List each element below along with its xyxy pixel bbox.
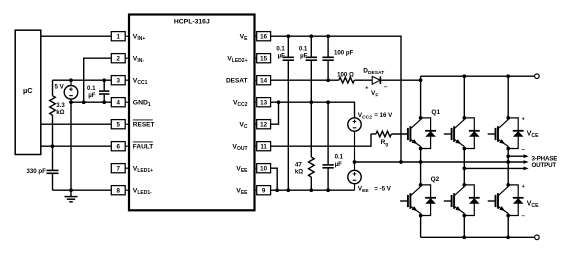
microcontroller µC <box>15 30 41 154</box>
pin 3 label VCC1 <box>133 78 148 86</box>
svg-text:3: 3 <box>116 77 120 84</box>
svg-text:µC: µC <box>23 86 33 95</box>
transistor Q1 phase-2 top (IGBT with freewheel diode) <box>444 116 480 150</box>
capacitor 100 pF (VE to DESAT) <box>322 36 353 80</box>
node VCC1 junctions <box>69 78 106 82</box>
transistor Q2 phase-2 bottom (IGBT with freewheel diode) <box>444 183 480 217</box>
ground <box>65 190 78 202</box>
svg-text:–: – <box>522 213 526 220</box>
pin 9 box <box>255 186 271 195</box>
wire phase-1 output row (VE node) <box>355 160 525 164</box>
pin 8 label VLED1- <box>133 188 152 196</box>
wire DESAT row (pin 14) <box>271 78 339 82</box>
transistor Q2 phase-3 bottom (IGBT with freewheel diode) <box>488 183 524 217</box>
wire phase column 1 bottom emitter rail <box>420 213 422 237</box>
pin 16 box <box>255 32 271 41</box>
pin 12 box <box>255 120 271 129</box>
capacitor 0.1 µF (VE to VCC2 bypass) <box>299 36 317 102</box>
svg-text:–: – <box>522 146 526 153</box>
resistor 3.3 kΩ (VCC1 to FAULT pull-up) <box>50 80 66 146</box>
transistor Q1 phase-1 top (IGBT with freewheel diode) <box>408 116 436 150</box>
op-amp U1 gate driver HCPL-316J body <box>129 15 255 211</box>
pin 11 box <box>255 142 271 151</box>
svg-text:6: 6 <box>116 143 120 150</box>
resistor 100 Ω (DESAT sense) <box>337 71 354 83</box>
wire µC to VIN+ pin 1 <box>41 35 112 37</box>
pin 2 label VIN- <box>133 56 145 64</box>
svg-text:330 pF: 330 pF <box>26 168 46 175</box>
wire phase column 1 emitter/mid rail <box>420 146 422 186</box>
svg-text:µF: µF <box>300 53 308 60</box>
svg-text:+: + <box>522 117 525 123</box>
wire GND1 down to ground <box>70 102 72 190</box>
pin 15 box <box>255 54 271 63</box>
svg-text:8: 8 <box>116 187 120 194</box>
pin 3 box <box>111 76 129 85</box>
wire µC to RESET pin 5 <box>41 123 112 125</box>
voltage source VCC2 = 16 V <box>348 112 393 162</box>
svg-text:100 Ω: 100 Ω <box>337 71 354 78</box>
svg-text:Q1: Q1 <box>431 109 440 116</box>
label Q2 <box>431 176 440 183</box>
label VCE lower <box>522 184 540 219</box>
pin 6 box <box>111 142 129 151</box>
pin 8 box <box>111 186 129 195</box>
svg-text:µF: µF <box>88 92 96 99</box>
pin 13 label VCC2 <box>233 100 248 108</box>
svg-text:11: 11 <box>260 143 267 150</box>
pin 5 box <box>111 120 129 129</box>
pin 2 box <box>111 54 129 63</box>
svg-text:OUTPUT: OUTPUT <box>532 162 557 169</box>
svg-text:1: 1 <box>116 33 120 40</box>
svg-text:10: 10 <box>260 165 267 172</box>
wire phase column 2 collector rail <box>463 76 465 119</box>
svg-text:+: + <box>365 85 368 91</box>
diode D_DESAT <box>354 68 420 99</box>
wire phase column 1 collector rail <box>420 76 422 119</box>
wire DC+ top bus <box>421 74 535 78</box>
svg-text:14: 14 <box>260 77 267 84</box>
svg-text:5 V: 5 V <box>55 84 65 91</box>
transistor Q2 phase-1 bottom (IGBT with freewheel diode) <box>400 183 436 217</box>
label VCE upper <box>522 117 540 153</box>
capacitor 330 pF (FAULT to VLED1-) <box>26 146 58 190</box>
svg-text:µF: µF <box>278 53 286 60</box>
pin 1 label VIN+ <box>133 34 146 42</box>
svg-text:µF: µF <box>335 161 343 168</box>
voltage source 5 V <box>55 80 78 102</box>
svg-text:12: 12 <box>260 121 267 128</box>
wire DC- bottom bus <box>421 235 535 239</box>
pin 4 box <box>111 98 129 107</box>
wire phase-2 output row <box>462 167 524 171</box>
wire VOUT row (pin 11) up to gate resistor <box>271 134 371 146</box>
resistor 47 kΩ (VCC2 to VEE) <box>295 102 314 190</box>
wire VIN- pin 2 tied to GND1 rail <box>84 58 112 102</box>
capacitor 0.1 µF (VCC2 to VEE bypass) <box>322 102 343 190</box>
svg-text:15: 15 <box>260 55 267 62</box>
svg-text:kΩ: kΩ <box>56 109 64 116</box>
svg-text:16: 16 <box>260 33 267 40</box>
pin 4 label GND1 <box>133 100 151 108</box>
svg-text:0.1: 0.1 <box>335 154 344 161</box>
pin 13 box <box>255 98 271 107</box>
svg-text:FAULT: FAULT <box>133 144 153 151</box>
capacitor 0.1 µF (VCC1 bypass) <box>87 80 109 102</box>
wire VCC2 row (pin 13) to source <box>271 100 355 117</box>
wire VC pin 12 tied to VCC2 <box>271 102 279 124</box>
pin 10 label VEE <box>236 166 248 174</box>
wire VEE pin 10 down to VEE row <box>271 168 278 190</box>
pin 9 label VEE <box>236 188 248 196</box>
wire VEE row (pin 9) <box>271 188 355 192</box>
wire VE row from pin 16 to bridge <box>271 34 401 162</box>
svg-text:4: 4 <box>116 99 120 106</box>
pin 6 label FAULT <box>133 142 153 151</box>
svg-text:100 pF: 100 pF <box>334 49 354 56</box>
svg-text:13: 13 <box>260 99 267 106</box>
svg-text:Q2: Q2 <box>431 176 440 183</box>
svg-text:0.1: 0.1 <box>276 45 285 52</box>
pin 10 box <box>255 164 271 173</box>
wire VCC1 rail (pin 3 row) <box>53 79 112 81</box>
capacitor 0.1 µF (VE to VEE bypass) <box>276 36 294 190</box>
svg-text:= -5 V: = -5 V <box>374 186 392 193</box>
node DC+ terminal <box>535 74 540 79</box>
pin 1 box <box>111 32 129 41</box>
pin 5 label RESET <box>133 120 155 129</box>
wire phase column 3 collector rail <box>507 76 509 119</box>
label Q1 <box>431 109 440 116</box>
pin 14 label DESAT <box>226 78 248 85</box>
resistor Rg (gate resistor) <box>371 131 408 147</box>
svg-text:0.1: 0.1 <box>299 45 308 52</box>
wire phase-3 output row <box>506 154 524 158</box>
wire VLED1- row (pin 8) <box>53 188 112 192</box>
svg-text:47: 47 <box>295 161 302 168</box>
pin 14 box <box>255 76 271 85</box>
node DESAT feedback to Q1a collector <box>419 78 423 82</box>
pin 15 label VLED2+ <box>227 56 247 64</box>
pin 16 label VE <box>240 34 249 42</box>
node source midpoint to VE/emitter <box>353 160 357 164</box>
svg-text:2: 2 <box>116 55 120 62</box>
pin 12 label VC <box>239 122 248 130</box>
svg-text:= 16 V: = 16 V <box>374 112 393 119</box>
wire phase column 2 emitter/mid rail <box>463 146 465 186</box>
pin 7 box <box>111 164 129 173</box>
svg-text:HCPL-316J: HCPL-316J <box>174 18 210 25</box>
wire phase column 3 emitter/mid rail <box>507 146 509 186</box>
wire phase column 2 bottom emitter rail <box>463 213 465 237</box>
wire µC to FAULT pin 6 <box>41 144 112 148</box>
svg-text:9: 9 <box>262 187 266 194</box>
node DC- terminal <box>535 235 540 240</box>
svg-text:RESET: RESET <box>133 122 155 129</box>
svg-text:DESAT: DESAT <box>226 78 248 85</box>
voltage source VEE = -5 V <box>348 162 392 194</box>
svg-text:7: 7 <box>116 165 120 172</box>
pin 7 label VLED1+ <box>133 166 153 174</box>
transistor Q1 phase-3 top (IGBT with freewheel diode) <box>488 116 524 150</box>
svg-text:kΩ: kΩ <box>295 168 303 175</box>
pin 11 label VOUT <box>232 144 247 152</box>
svg-text:5: 5 <box>116 121 120 128</box>
label 3-PHASE OUTPUT <box>532 156 558 169</box>
wire GND1 row (pin 4) <box>69 100 111 104</box>
wire phase column 3 bottom emitter rail <box>507 213 509 237</box>
svg-text:+: + <box>522 184 525 190</box>
